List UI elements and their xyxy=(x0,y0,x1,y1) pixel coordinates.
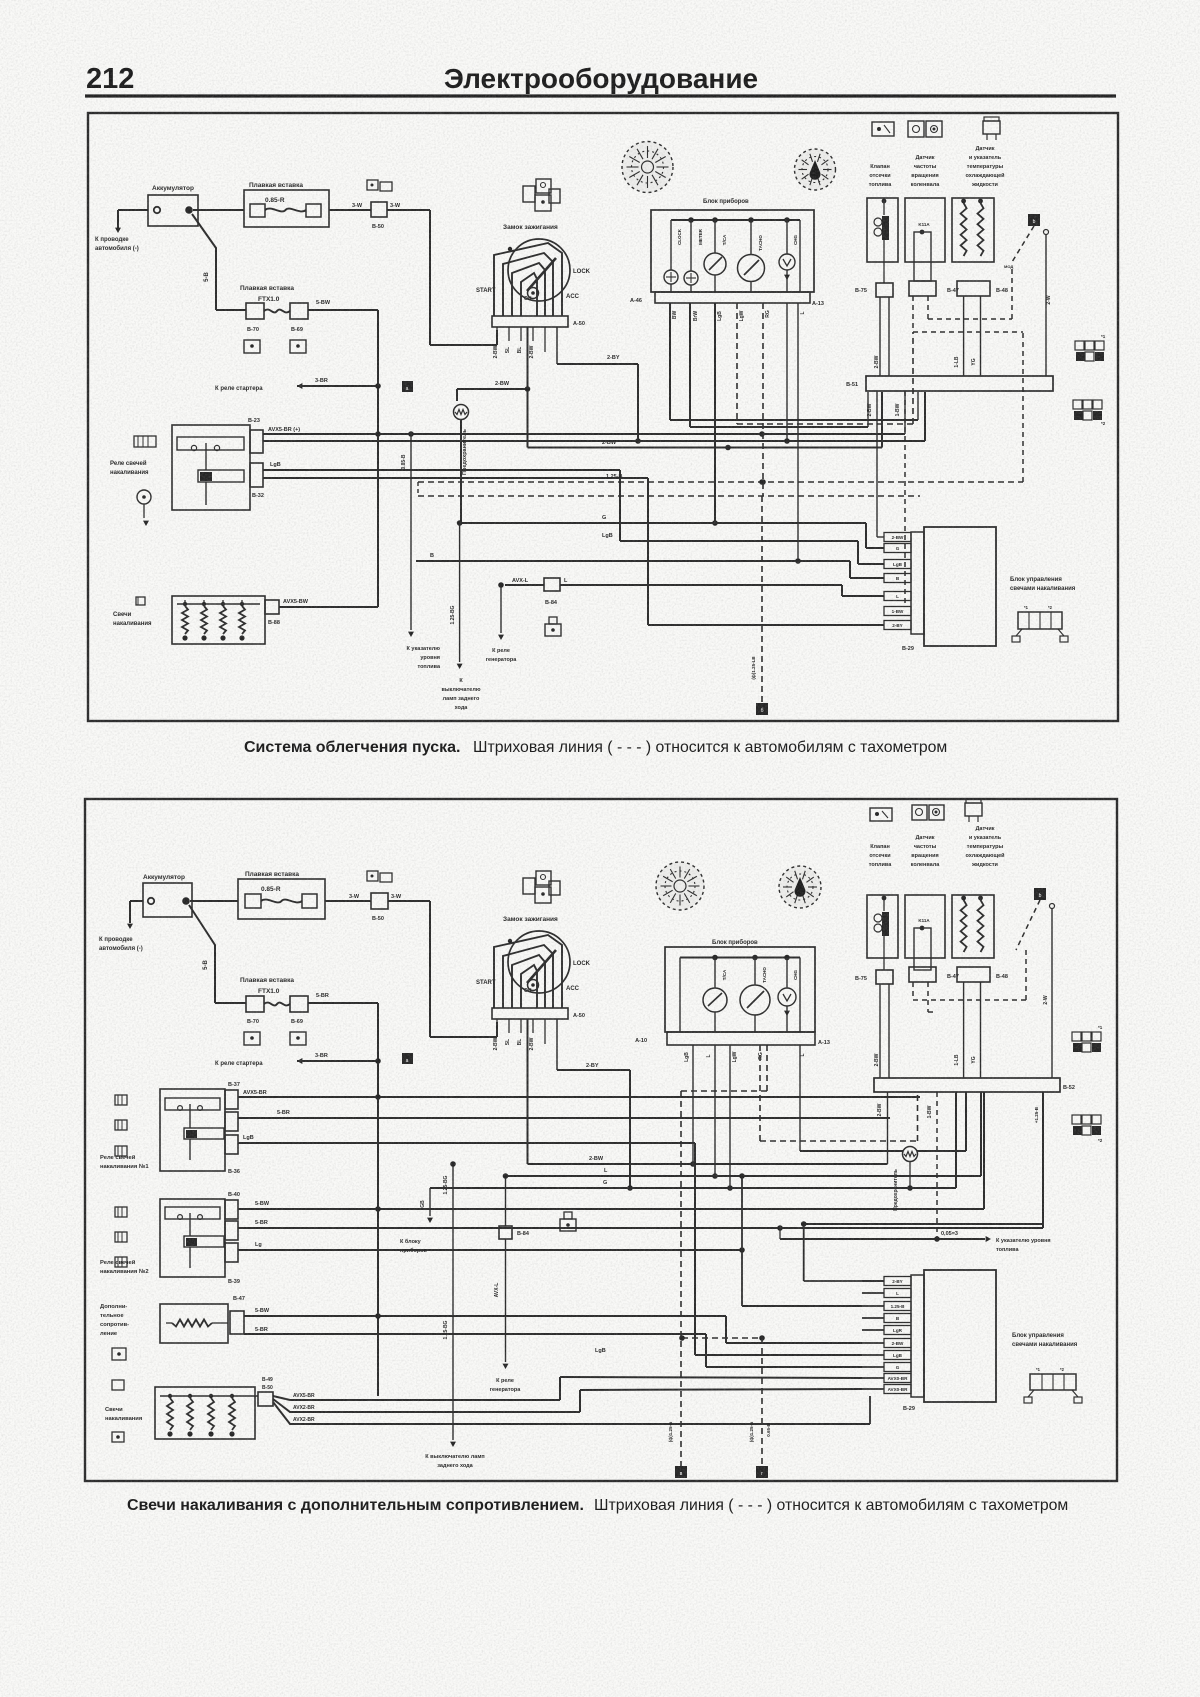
cluster2 gauge 1 xyxy=(714,958,716,989)
ignition connector A-50 2 xyxy=(492,1008,568,1019)
fusible link 0.85-R 2 xyxy=(238,879,325,919)
wire ignition main down xyxy=(527,327,529,448)
crank sensor 2 xyxy=(905,895,945,958)
connector face circle 1 xyxy=(622,142,673,193)
diagram 2 border xyxy=(85,799,1117,1481)
left vertical 1.25-BG xyxy=(457,520,463,526)
glow plug connector B-88 xyxy=(265,600,279,614)
wire ignition down 2 xyxy=(527,1019,529,1164)
connector icon below relay xyxy=(137,490,151,504)
connector icons below fuse 2 xyxy=(244,340,260,353)
icon above B-50 2 xyxy=(367,871,378,881)
battery xyxy=(148,195,198,226)
relay2 icons xyxy=(115,1207,127,1217)
resistor icons xyxy=(112,1348,126,1360)
ignition connector icon xyxy=(536,179,551,193)
connector B-48 xyxy=(957,281,990,296)
relay connector B-32 xyxy=(250,463,263,487)
connector B-84 2 xyxy=(505,1176,507,1226)
right edge connector grid 2 xyxy=(1073,400,1082,409)
house icon 2 xyxy=(560,1219,576,1231)
connector B-47 xyxy=(909,281,936,296)
icon valve xyxy=(872,122,894,136)
wire battery to fuse xyxy=(193,209,244,211)
cluster lamp 1 xyxy=(670,220,672,270)
cluster lamp 2 xyxy=(690,220,692,271)
wire cluster LgB down xyxy=(714,303,716,523)
wire 1.25-B stub row xyxy=(741,1176,743,1306)
temp sensor 2 xyxy=(952,895,994,958)
ignition switch xyxy=(508,239,570,301)
cluster2 dashed descenders xyxy=(759,1045,761,1141)
additional resistor xyxy=(160,1304,228,1343)
wire to reverse lamp switch 2 xyxy=(452,1164,454,1440)
switch arm marker xyxy=(1028,214,1040,226)
instrument cluster xyxy=(651,210,814,292)
wire right down 2 xyxy=(1050,904,1055,909)
left vertical 0.45-B xyxy=(410,434,412,630)
dashed bottom markers xyxy=(682,1337,762,1339)
wire right solid down xyxy=(1044,230,1049,235)
wire 2-BY stub xyxy=(648,624,884,626)
temp sensor gauge xyxy=(952,198,994,262)
cluster gauge tacho xyxy=(750,220,752,255)
cluster2 charge gauge xyxy=(786,958,788,989)
wire cluster BW xyxy=(669,303,671,420)
junction a marker xyxy=(402,381,413,392)
wire cluster dashed tach 1 xyxy=(736,303,738,424)
connector icon above B-50 xyxy=(367,180,378,190)
crank speed sensor xyxy=(905,198,945,262)
cluster2 connector bar xyxy=(667,1032,815,1045)
wire cluster RG xyxy=(786,303,788,441)
connector face circle 2 xyxy=(795,149,836,190)
wire battery2 to fuse xyxy=(190,900,238,902)
wire battery to ground lead xyxy=(118,209,148,211)
wire relay contact output xyxy=(263,440,638,442)
wire to B-50 2 xyxy=(325,900,371,902)
wire battery down to second fuse xyxy=(192,214,216,310)
glow plugs 2 icons xyxy=(112,1380,124,1390)
wire B-50 to ignition switch xyxy=(387,209,430,211)
diagram 1 border xyxy=(88,113,1118,721)
wire to generator relay xyxy=(500,585,502,633)
wire relay B-32 lower xyxy=(263,477,648,479)
ignition icon 2 xyxy=(536,871,551,885)
dashed from B-47 2 xyxy=(912,982,914,1000)
pin face icon 2 xyxy=(1030,1374,1076,1390)
glow relay xyxy=(172,425,250,510)
wire B-47 dashed 1 xyxy=(912,296,914,332)
icon valve 2 xyxy=(870,808,892,821)
control unit 2 stubs xyxy=(884,1277,911,1286)
house connector icon xyxy=(545,624,561,636)
wires below bar B-51 xyxy=(876,391,878,537)
wire cluster L xyxy=(797,303,799,561)
glow plugs xyxy=(172,596,265,644)
icon temp connector 2 xyxy=(965,803,982,816)
glow relay 2 xyxy=(160,1199,225,1277)
fuse circle 2 xyxy=(800,1150,903,1152)
cluster2 gauge 2 xyxy=(754,958,756,986)
control unit 2 strip xyxy=(911,1275,924,1397)
icons below fuse2-2 xyxy=(244,1032,260,1045)
switch arm marker 2 xyxy=(1034,888,1046,900)
fusible link 0.85-R xyxy=(244,190,329,227)
wire B-50 to ignition 2 xyxy=(388,900,430,902)
pin face icon xyxy=(1018,612,1062,629)
glow relay icon xyxy=(134,436,156,447)
wire battery2 ground xyxy=(130,900,143,902)
connector face circle 4 xyxy=(779,866,821,908)
wire cluster dashed tach 2 xyxy=(762,303,764,496)
glow control unit strip xyxy=(911,532,924,634)
right grid 4 xyxy=(1072,1115,1081,1124)
wire cluster BrW xyxy=(689,303,691,427)
below bar B-52 xyxy=(887,1092,889,1164)
connector B-48 2 xyxy=(957,967,990,982)
instrument cluster 2 xyxy=(665,947,815,1032)
wire fuse to connector B-50 xyxy=(329,209,371,211)
fusible link FTX1.0 xyxy=(246,303,264,319)
icon sensor pair xyxy=(908,121,924,137)
glow plugs 2 xyxy=(155,1387,255,1439)
glow relay 1 xyxy=(160,1089,225,1171)
fuel cutoff valve xyxy=(867,198,898,262)
marker a 2 xyxy=(402,1053,413,1064)
glow control unit stubs xyxy=(884,533,911,542)
connector face circle 3 xyxy=(656,862,704,910)
cluster gauge small xyxy=(714,220,716,253)
icon temp connector xyxy=(983,121,1000,134)
wire battery2 down xyxy=(189,905,215,1003)
ignition connector A-50 xyxy=(492,316,568,327)
glow control unit 2 xyxy=(924,1270,996,1402)
fusible link FTX1.0 2 xyxy=(246,996,264,1012)
cluster charge gauge xyxy=(786,220,788,254)
connector B-47 2 xyxy=(909,967,936,982)
header rule xyxy=(85,94,1116,97)
wire y1224 long xyxy=(804,1223,1043,1225)
ignition switch 2 xyxy=(508,931,570,993)
cluster connector bar xyxy=(655,292,810,303)
icon sensor pair 2 xyxy=(912,805,927,820)
fuse circle xyxy=(454,405,469,420)
fuel cutoff valve 2 xyxy=(867,895,898,958)
connector bar B-52 xyxy=(874,1078,1060,1092)
battery 2 xyxy=(143,883,192,917)
glow control unit xyxy=(924,527,996,646)
wire B-47 dashed 2 xyxy=(927,296,929,319)
relay1 icons xyxy=(115,1095,127,1105)
dashed drop to marker b xyxy=(761,496,763,703)
glow plugs icon xyxy=(136,597,145,605)
cluster2 descenders xyxy=(692,1045,694,1164)
